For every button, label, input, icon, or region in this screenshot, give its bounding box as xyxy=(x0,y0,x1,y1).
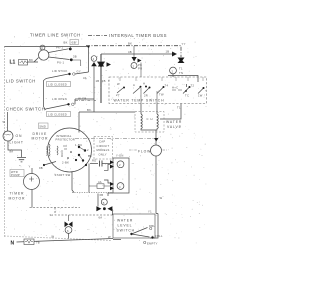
node triangles at timer contact 6 xyxy=(65,222,73,228)
terminal arrow right small xyxy=(107,62,112,67)
label WATER VALVE xyxy=(166,120,182,129)
boxed label above motor xyxy=(39,123,49,129)
lid switch stage 1 blade xyxy=(46,72,89,79)
svg-text:3A: 3A xyxy=(50,213,54,217)
temp contact 3 xyxy=(157,84,168,97)
valve solenoid cold xyxy=(141,114,142,129)
wire cam2 into temp box xyxy=(172,74,174,77)
wire drop from top rail xyxy=(88,47,90,73)
water level switch pivot xyxy=(130,233,132,235)
svg-text:TN: TN xyxy=(179,71,183,75)
svg-text:GY: GY xyxy=(77,70,81,74)
svg-text:DRIVE: DRIVE xyxy=(33,132,48,136)
water temp switch dashed box xyxy=(109,77,207,104)
dashed wire to junction xyxy=(30,207,81,209)
svg-text:RD: RD xyxy=(92,159,96,163)
dash-dot leader to INTERNAL TIMER BUSS xyxy=(88,35,107,37)
wire horizontal mid xyxy=(79,111,135,113)
water level blades xyxy=(132,228,150,238)
check switch label box LID CLOSED xyxy=(47,112,71,117)
svg-text:2B: 2B xyxy=(102,79,106,83)
svg-text:PROTECTOR: PROTECTOR xyxy=(56,138,76,142)
wire temp box to valve coil 1 xyxy=(140,104,142,115)
label 4A with symbol xyxy=(89,180,110,188)
svg-text:BK: BK xyxy=(88,154,92,158)
svg-text:LEVEL: LEVEL xyxy=(118,224,133,228)
temp contact 4 xyxy=(172,86,182,91)
wire temp box right down xyxy=(160,104,181,120)
water valve dashed box xyxy=(135,112,164,133)
wire N bus into box xyxy=(113,239,121,241)
svg-text:VALVE: VALVE xyxy=(167,125,182,129)
svg-text:LIGHT: LIGHT xyxy=(10,141,24,145)
temp contact 6 xyxy=(198,87,205,98)
svg-text:2R: 2R xyxy=(144,94,148,98)
wire contact to valve cold xyxy=(140,88,142,104)
svg-text:2-BK: 2-BK xyxy=(62,161,69,165)
timer enclosure left dotted border xyxy=(4,47,6,237)
svg-text:START: START xyxy=(45,146,49,156)
capacitor C xyxy=(100,161,111,167)
svg-text:EMPTY: EMPTY xyxy=(147,242,158,246)
label WATER TEMP SWITCH xyxy=(113,97,165,104)
timer contact circle 4 xyxy=(117,183,124,190)
label INTERNAL PROTECTOR xyxy=(56,134,76,142)
svg-text:CHECK SWITCH: CHECK SWITCH xyxy=(6,107,45,112)
bracket wires xyxy=(104,164,110,183)
terminal arrows into contact 4 xyxy=(110,182,114,190)
svg-text:4A: 4A xyxy=(98,180,102,184)
svg-text:T4: T4 xyxy=(165,84,169,88)
timer cam circle 4 xyxy=(91,56,97,62)
stub from rail to PK contact xyxy=(69,47,71,50)
labels T1 TN xyxy=(179,67,183,76)
svg-text:INTERNAL: INTERNAL xyxy=(56,134,72,138)
flow control circle xyxy=(151,145,162,156)
wire fuse to switch xyxy=(28,58,39,63)
motor winding START xyxy=(45,144,50,156)
wire cam4 down xyxy=(93,66,95,112)
water level contacts xyxy=(150,227,154,238)
svg-text:W: W xyxy=(52,235,55,239)
label C H xyxy=(147,117,153,121)
valve solenoid hot xyxy=(157,114,158,129)
svg-text:1W: 1W xyxy=(198,94,203,98)
svg-text:LID CLOSED: LID CLOSED xyxy=(48,113,67,117)
node triangle under cam 4 xyxy=(91,62,97,66)
timer contact circle 5 xyxy=(101,199,107,205)
svg-text:4B: 4B xyxy=(128,50,132,54)
svg-text:N: N xyxy=(11,241,15,247)
motor interior marks xyxy=(63,146,72,159)
svg-text:PK-1: PK-1 xyxy=(56,46,63,50)
temp contact 2 xyxy=(133,82,147,94)
dotted wire bottom xyxy=(72,192,113,194)
svg-text:2Y: 2Y xyxy=(116,93,120,97)
wire lamp to ground xyxy=(8,141,22,157)
svg-text:INTERNAL TIMER BUSS: INTERNAL TIMER BUSS xyxy=(109,33,167,38)
wire lamp top xyxy=(7,112,9,131)
wire contact 6 to N bus xyxy=(68,233,70,238)
svg-text:4: 4 xyxy=(93,57,95,61)
wire cap leg down xyxy=(88,164,90,193)
svg-text:TIMER: TIMER xyxy=(10,192,25,196)
timer contact circle 6 xyxy=(65,227,72,234)
svg-text:ONLY: ONLY xyxy=(99,152,107,156)
temp box contact stubs xyxy=(120,77,203,81)
motor winding RUN xyxy=(57,146,64,157)
dashed drop xyxy=(55,208,113,216)
svg-text:PK: PK xyxy=(138,63,142,67)
wire stage1 to stage2 xyxy=(44,79,47,111)
svg-text:FLOW: FLOW xyxy=(138,150,151,154)
lamp ON LIGHT xyxy=(3,131,13,141)
drive motor circle xyxy=(48,128,92,172)
svg-text:BK: BK xyxy=(87,108,91,112)
lid switch stage 1 label LID STICK xyxy=(52,69,68,73)
timer motor pole xyxy=(29,177,34,182)
cap circuit dashed box xyxy=(94,137,113,160)
svg-text:H: H xyxy=(151,117,153,121)
svg-text:3B: 3B xyxy=(73,55,77,59)
fuse on N bus xyxy=(24,239,34,245)
lid switch stage 1 label LID CLOSED xyxy=(47,82,71,87)
wire motor bottom xyxy=(72,172,74,193)
svg-text:6: 6 xyxy=(67,229,69,233)
svg-text:WATER: WATER xyxy=(117,219,133,223)
wire motor to capacitor xyxy=(90,163,98,165)
labels 1B 2B on verticals xyxy=(96,79,111,83)
wire junction down to box corner xyxy=(111,209,113,215)
svg-text:PUMP: PUMP xyxy=(11,173,20,177)
svg-text:PU-1: PU-1 xyxy=(57,61,65,65)
label EMPTY xyxy=(144,241,158,245)
timer cam circle 2 top right xyxy=(170,67,177,74)
wire flow down to water level switch xyxy=(150,156,158,238)
label TIMER MOTOR xyxy=(9,192,26,201)
svg-text:FULL: FULL xyxy=(155,234,163,238)
svg-text:TC: TC xyxy=(185,94,189,98)
terminal arrows into contact 2 xyxy=(110,160,114,168)
svg-text:CIRCUIT: CIRCUIT xyxy=(97,144,110,148)
svg-text:6B: 6B xyxy=(100,193,104,197)
temp contact 2b xyxy=(144,87,151,98)
svg-text:L1: L1 xyxy=(10,60,16,66)
switch blades to contacts xyxy=(49,49,70,60)
wire box bottom corner xyxy=(108,193,113,196)
svg-text:Y-GN: Y-GN xyxy=(116,154,124,158)
dash-dot leader W-GB xyxy=(75,97,96,101)
svg-text:LID CLOSED: LID CLOSED xyxy=(48,83,67,87)
svg-text:TW: TW xyxy=(159,93,164,97)
svg-text:H+C: H+C xyxy=(172,86,178,90)
motor terminal dots xyxy=(78,146,87,166)
svg-text:2: 2 xyxy=(87,148,89,152)
svg-text:A: A xyxy=(133,83,135,87)
svg-text:7B: 7B xyxy=(36,241,40,245)
svg-text:TIMER LINE SWITCH: TIMER LINE SWITCH xyxy=(30,33,81,38)
node arrow on valve wire xyxy=(154,138,158,142)
contact dot PK xyxy=(69,48,72,51)
svg-text:W: W xyxy=(117,82,120,86)
wire valve bottoms joined xyxy=(141,129,157,146)
svg-text:BK: BK xyxy=(64,41,68,45)
dash-dot internal timer buss rail xyxy=(86,46,181,57)
svg-text:PU: PU xyxy=(138,67,142,71)
svg-text:W: W xyxy=(160,196,163,200)
svg-text:5: 5 xyxy=(103,201,105,205)
svg-text:ON: ON xyxy=(16,134,23,138)
dash-dot divider line xyxy=(75,138,156,140)
svg-text:MOTOR: MOTOR xyxy=(9,197,26,201)
motor centrifugal switch xyxy=(43,159,77,166)
wire drop to contact 6 xyxy=(68,215,70,221)
label BK-GB boxed xyxy=(64,40,79,45)
node diamond junction under buss corner xyxy=(98,54,104,103)
timer enclosure bottom dotted border xyxy=(5,236,113,241)
timer line switch contact circle C xyxy=(40,45,45,50)
N bus wire xyxy=(17,239,114,243)
temp contact 5 xyxy=(183,84,194,98)
timer cam circle 3 mid xyxy=(131,46,142,77)
svg-text:5MD: 5MD xyxy=(40,125,47,129)
timer contact circle 2 xyxy=(117,161,124,168)
dash-dot at flow xyxy=(129,149,168,151)
motor switch box xyxy=(113,158,129,193)
water level switch box xyxy=(113,214,155,238)
svg-text:YY: YY xyxy=(182,42,186,46)
svg-text:SWITCH: SWITCH xyxy=(117,229,135,233)
label WATER LEVEL SWITCH xyxy=(117,219,135,233)
wire timer motor top xyxy=(31,168,33,174)
svg-text:LID OPEN: LID OPEN xyxy=(52,97,67,101)
svg-text:Y: Y xyxy=(29,165,31,169)
svg-text:9B: 9B xyxy=(39,166,43,170)
svg-text:LID SWITCH: LID SWITCH xyxy=(6,79,36,84)
svg-text:4: 4 xyxy=(119,185,121,189)
svg-text:T2: T2 xyxy=(191,84,195,88)
motor terminal labels xyxy=(75,143,92,158)
svg-text:C: C xyxy=(147,117,149,121)
wire top rail L1 xyxy=(5,46,89,48)
label DRIVE MOTOR xyxy=(32,132,49,141)
temp contact 1 xyxy=(116,82,125,97)
svg-text:BK: BK xyxy=(29,58,33,62)
svg-text:MODELS: MODELS xyxy=(97,148,110,152)
svg-text:RUN: RUN xyxy=(60,150,64,157)
timer line switch body xyxy=(39,50,49,60)
wire timer motor bottom xyxy=(31,190,33,208)
fuse L1 xyxy=(19,60,28,66)
wire check switch to junction xyxy=(75,99,94,104)
wire from motor switch to junction xyxy=(97,194,99,207)
svg-text:T1: T1 xyxy=(179,67,183,71)
svg-text:W: W xyxy=(108,235,111,239)
svg-text:2: 2 xyxy=(172,69,174,73)
wire contact to valve hot xyxy=(156,91,158,104)
wire right rail into box xyxy=(168,76,198,83)
label ON LIGHT xyxy=(10,134,24,145)
svg-text:1B: 1B xyxy=(166,50,170,54)
svg-text:6A: 6A xyxy=(99,216,103,220)
svg-text:2: 2 xyxy=(133,64,135,68)
node triangles at water level feed xyxy=(96,206,112,211)
node diamond at buss drop xyxy=(178,58,185,63)
wire timer buss solid rail xyxy=(101,53,172,55)
svg-text:Y1: Y1 xyxy=(148,210,152,214)
svg-text:1-BU: 1-BU xyxy=(75,143,82,147)
svg-text:W: W xyxy=(3,120,6,124)
boxed label water pump xyxy=(10,170,24,178)
svg-text:BK: BK xyxy=(128,42,132,46)
timer motor circle xyxy=(24,174,40,190)
svg-text:2: 2 xyxy=(119,163,121,167)
svg-text:T1: T1 xyxy=(177,106,181,110)
svg-text:H: H xyxy=(143,82,145,86)
contact dot PU xyxy=(70,58,73,61)
terminal arrow right on buss rail xyxy=(172,52,177,57)
lid switch stage 2 blade xyxy=(46,103,75,109)
svg-text:WATER: WATER xyxy=(166,120,182,124)
svg-text:DBL: DBL xyxy=(149,224,155,228)
label CAP CIRCUIT MODELS ONLY xyxy=(97,140,110,157)
ground xyxy=(17,158,26,162)
wire temp box to valve coil 2 xyxy=(156,104,158,115)
svg-text:8A: 8A xyxy=(10,150,14,154)
wire motor feed xyxy=(78,112,80,133)
svg-text:CAP: CAP xyxy=(99,140,105,144)
svg-text:3A: 3A xyxy=(83,76,87,80)
